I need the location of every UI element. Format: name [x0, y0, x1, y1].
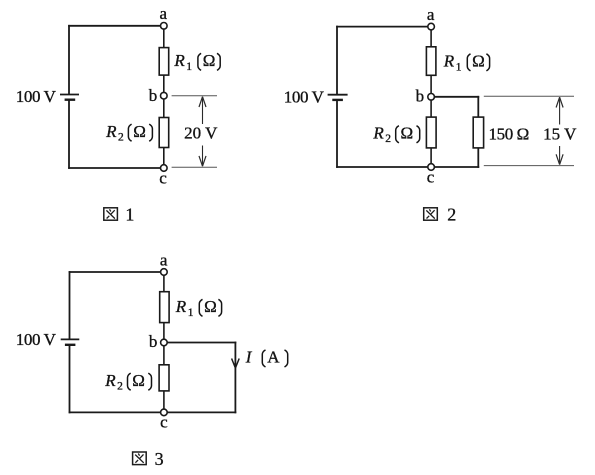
svg-text:c: c — [427, 168, 435, 187]
label: node c (fig2) — [427, 168, 435, 187]
svg-text:c: c — [159, 169, 167, 188]
label: 20 V across R2 (fig1) — [184, 124, 218, 143]
dimension arrow 15 V (fig2): down arrowhead — [556, 154, 563, 164]
wire: fig1 top wire from left rail to node a — [68, 25, 160, 27]
resistor R2 (fig1) body — [159, 118, 169, 148]
wire: fig1 left rail upper (top wire to battery + plate) — [68, 25, 70, 95]
label: 100 V source value (fig2) — [284, 87, 325, 106]
label: R1 [ohm] value (fig2) — [443, 52, 490, 74]
caption: fig3 "zu" kanji box glyph — [133, 452, 147, 465]
node a (fig1) terminal circle — [161, 23, 168, 30]
label: node c (fig1) — [159, 169, 167, 188]
label: 150 ohm value (fig2) — [489, 124, 529, 143]
wire: fig3 resistor R2 to node c — [163, 391, 165, 410]
label: node a (fig2) — [427, 5, 435, 24]
node b (fig1) junction circle — [161, 92, 168, 99]
svg-text:a: a — [160, 251, 168, 270]
svg-text:3: 3 — [155, 449, 164, 469]
svg-text:15 V: 15 V — [543, 124, 577, 143]
dimension arrow 20 V (fig1): upper shaft — [202, 97, 204, 124]
wire: fig3 right branch vertical down to bottom wire — [234, 342, 236, 414]
battery B2 long plate (fig2, positive) — [328, 94, 348, 96]
dimension arrow 20 V (fig1): down arrowhead — [199, 156, 206, 166]
node c (fig3) terminal circle — [161, 409, 168, 416]
wire: fig3 left rail upper (top wire to battery + plate) — [69, 271, 71, 339]
dimension arrow 20 V (fig1): up arrowhead — [199, 97, 206, 107]
dimension reference line at node c level (fig2) — [484, 165, 574, 167]
label: 100 V source value (fig3) — [16, 330, 57, 349]
label: 15 V across parallel pair (fig2) — [543, 124, 577, 143]
wire: fig1 node a to resistor R1 — [163, 29, 165, 48]
svg-text:R: R — [105, 122, 117, 141]
wire: fig3 left rail lower (battery - plate to bottom wire) — [69, 345, 71, 414]
wire: fig2 node b to parallel branch corner — [434, 96, 479, 98]
svg-text:150 Ω: 150 Ω — [489, 124, 529, 143]
battery B3 long plate (fig3, positive) — [61, 338, 80, 340]
dimension reference line at node b level (fig2) — [484, 95, 574, 97]
resistor R2 (fig2) body — [426, 117, 436, 148]
svg-text:1: 1 — [188, 307, 194, 319]
wire: fig2 resistor R2 to node c — [430, 148, 432, 164]
wire: fig1 node b to resistor R2 — [163, 99, 165, 118]
svg-text:100 V: 100 V — [284, 87, 325, 106]
wire: fig2 parallel branch upper segment down to 150 ohm resistor — [477, 96, 479, 118]
caption: fig1 "zu" kanji box glyph — [104, 208, 118, 220]
svg-text:2: 2 — [447, 204, 456, 224]
resistor R2 (fig3) body — [159, 365, 169, 391]
svg-text:1: 1 — [125, 204, 134, 224]
svg-text:R: R — [104, 371, 116, 390]
caption: fig2 number 2 — [447, 204, 456, 224]
svg-text:2: 2 — [117, 381, 123, 393]
svg-text:b: b — [149, 332, 158, 351]
wire: fig3 top wire from left rail to node a — [69, 271, 161, 273]
svg-text:Ω: Ω — [401, 123, 414, 142]
svg-text:c: c — [160, 412, 168, 431]
wire: fig2 parallel branch lower segment to bottom wire — [477, 148, 479, 168]
node c (fig1) terminal circle — [161, 165, 168, 172]
wire: fig1 resistor R1 to node b — [163, 75, 165, 92]
wire: fig1 resistor R2 to node c — [163, 148, 165, 166]
caption: fig2 "zu" kanji box glyph — [424, 208, 438, 220]
label: R1 [ohm] value (fig3) — [175, 297, 222, 319]
svg-text:Ω: Ω — [133, 122, 146, 141]
label: R2 [ohm] value (fig3) — [104, 371, 151, 393]
resistor R1 (fig1) body — [159, 48, 169, 76]
wire: fig2 bottom wire from left rail through node c to right branch — [336, 166, 479, 168]
svg-text:b: b — [416, 86, 425, 105]
svg-text:20 V: 20 V — [184, 124, 218, 143]
node b (fig2) junction circle — [428, 94, 435, 101]
svg-text:R: R — [443, 52, 455, 71]
battery B3 short plate (fig3, negative) — [65, 344, 76, 346]
caption: fig1 number 1 — [125, 204, 134, 224]
svg-text:A: A — [267, 348, 280, 367]
battery B1 short plate (fig1, negative) — [65, 98, 76, 100]
svg-text:1: 1 — [456, 61, 462, 73]
dimension arrow 15 V (fig2): up arrowhead — [556, 97, 563, 107]
label: R1 [ohm] value (fig1) — [173, 51, 220, 73]
node a (fig3) terminal circle — [161, 269, 168, 276]
wire: fig1 bottom wire from left rail to node c — [68, 167, 160, 169]
svg-text:b: b — [149, 86, 158, 105]
label: node c (fig3) — [160, 412, 168, 431]
label: node a (fig3) — [160, 251, 168, 270]
wire: fig2 node b to resistor R2 — [430, 100, 432, 117]
svg-text:2: 2 — [118, 132, 124, 144]
label: node b (fig2) — [416, 86, 425, 105]
wire: fig3 node a to resistor R1 — [163, 275, 165, 292]
wire: fig2 resistor R1 to node b — [430, 75, 432, 93]
wire: fig3 resistor R1 to node b — [163, 323, 165, 340]
current arrow I (fig3): open arrowhead pointing down on right branch — [232, 359, 240, 369]
dimension arrow 15 V (fig2): lower shaft — [559, 146, 561, 165]
svg-text:1: 1 — [186, 61, 192, 73]
battery B2 short plate (fig2, negative) — [332, 99, 343, 101]
wire: fig3 node b to resistor R2 — [163, 346, 165, 365]
label: I [A] current (fig3) — [245, 348, 288, 367]
wire: fig2 left rail upper (top wire to battery + plate) — [336, 26, 338, 95]
svg-text:100 V: 100 V — [16, 87, 57, 106]
svg-text:a: a — [427, 5, 435, 24]
label: node b (fig1) — [149, 86, 158, 105]
wire: fig1 left rail lower (battery - plate to bottom wire) — [68, 100, 70, 169]
node b (fig3) junction circle — [161, 339, 168, 346]
svg-text:100 V: 100 V — [16, 330, 57, 349]
wire: fig2 left rail lower (battery - plate to bottom wire) — [336, 100, 338, 168]
svg-text:R: R — [173, 51, 185, 70]
svg-text:Ω: Ω — [472, 52, 485, 71]
wire: fig2 top wire from left rail to node a — [336, 26, 428, 28]
label: R2 [ohm] value (fig1) — [105, 122, 152, 144]
dimension reference line at node c level (fig1) — [172, 166, 217, 168]
svg-text:a: a — [160, 4, 168, 23]
caption: fig3 number 3 — [155, 449, 164, 469]
node c (fig2) terminal circle — [428, 164, 435, 171]
node a (fig2) terminal circle — [428, 23, 435, 30]
svg-text:Ω: Ω — [203, 51, 216, 70]
resistor 150 ohm (fig2) body — [473, 117, 483, 148]
label: R2 [ohm] value (fig2) — [372, 123, 419, 145]
resistor R1 (fig3) body — [160, 292, 169, 323]
wire: fig3 bottom wire from left rail through node c to right branch — [69, 411, 237, 413]
label: node a (fig1) — [160, 4, 168, 23]
svg-text:Ω: Ω — [204, 297, 217, 316]
dimension arrow 20 V (fig1): lower shaft — [202, 146, 204, 167]
svg-text:I: I — [245, 348, 253, 367]
svg-text:R: R — [372, 123, 384, 142]
svg-text:2: 2 — [385, 133, 391, 145]
svg-text:Ω: Ω — [132, 371, 145, 390]
label: 100 V source value (fig1) — [16, 87, 57, 106]
resistor R1 (fig2) body — [426, 47, 436, 76]
wire: fig3 node b to right branch corner — [167, 342, 236, 344]
label: node b (fig3) — [149, 332, 158, 351]
dimension reference line at node b level (fig1) — [172, 95, 217, 97]
dimension arrow 15 V (fig2): upper shaft — [559, 97, 561, 124]
battery B1 long plate (fig1, positive) — [60, 94, 79, 96]
svg-text:R: R — [175, 297, 187, 316]
wire: fig2 node a to resistor R1 — [430, 30, 432, 47]
